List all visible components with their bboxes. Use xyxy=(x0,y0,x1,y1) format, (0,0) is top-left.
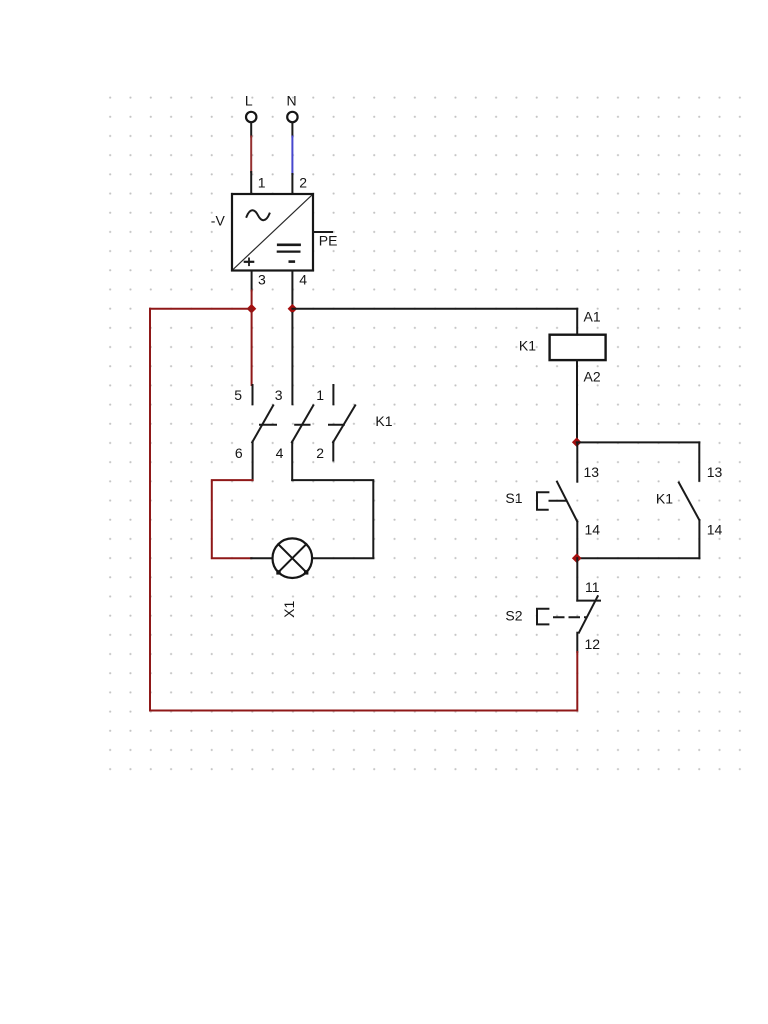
wire node B to coil branch xyxy=(292,308,577,310)
junction node C xyxy=(572,437,582,447)
svg-text:A2: A2 xyxy=(584,369,601,385)
contact K1 pole 5-6 xyxy=(252,405,273,480)
svg-text:1: 1 xyxy=(258,175,266,191)
terminal L xyxy=(246,112,256,122)
svg-text:K1: K1 xyxy=(656,491,673,507)
wire left rail vertical xyxy=(149,309,151,711)
wire node A to contact 5 xyxy=(251,309,254,405)
pushbutton actuator S2 xyxy=(537,609,587,625)
terminal N xyxy=(287,112,297,122)
svg-text:3: 3 xyxy=(275,387,283,403)
svg-text:3: 3 xyxy=(258,271,266,287)
wire contact 6 to lamp xyxy=(212,480,273,558)
wire node B to contact 3 xyxy=(291,313,293,404)
wire L to pin 1 xyxy=(250,123,252,194)
pushbutton actuator S1 xyxy=(537,492,567,510)
pin PE stub xyxy=(313,231,332,233)
svg-text:5: 5 xyxy=(234,387,242,403)
svg-text:14: 14 xyxy=(585,522,601,538)
svg-text:11: 11 xyxy=(585,579,600,595)
svg-text:K1: K1 xyxy=(375,413,392,429)
wire node C to K1 contact xyxy=(577,441,700,443)
svg-text:A1: A1 xyxy=(584,309,601,325)
svg-text:13: 13 xyxy=(707,464,723,480)
wire N to pin 2 xyxy=(291,123,293,194)
junction node D xyxy=(572,553,582,563)
contact K1 aux (NO) xyxy=(679,442,700,558)
wire node A to left rail xyxy=(150,308,252,310)
power supply U1 (-V) AC/DC converter xyxy=(232,194,313,271)
svg-text:1: 1 xyxy=(316,387,324,403)
junction node B xyxy=(288,304,298,314)
wire contact 4 to lamp xyxy=(292,480,373,558)
wire to coil A1 xyxy=(576,309,578,335)
svg-text:14: 14 xyxy=(707,522,723,538)
svg-text:S1: S1 xyxy=(505,490,522,506)
contact S1 (NO) xyxy=(557,442,577,558)
svg-text:S2: S2 xyxy=(505,608,522,624)
svg-text:12: 12 xyxy=(585,636,601,652)
svg-text:N: N xyxy=(286,93,296,109)
wire bottom rail xyxy=(150,710,577,712)
svg-text:L: L xyxy=(245,93,253,109)
svg-text:K1: K1 xyxy=(519,338,536,354)
svg-text:2: 2 xyxy=(316,445,324,461)
svg-text:X1: X1 xyxy=(281,601,297,618)
relay coil K1 xyxy=(550,335,606,360)
wire pin 4 to node B xyxy=(291,271,293,309)
wire coil A2 to node C xyxy=(576,360,578,442)
contact K1 pole 3-4 xyxy=(292,405,313,480)
junction node A xyxy=(247,304,257,314)
contact S2 (NC) xyxy=(577,558,600,652)
svg-text:2: 2 xyxy=(299,175,307,191)
svg-text:4: 4 xyxy=(299,271,307,287)
lamp X1 xyxy=(273,538,313,578)
contact K1 pole 1-2 xyxy=(333,385,355,461)
svg-text:6: 6 xyxy=(235,445,243,461)
mechanical linkage dashes xyxy=(260,424,344,426)
wire pin 3 to node A xyxy=(251,271,253,309)
svg-text:PE: PE xyxy=(319,233,338,249)
wire S2 pin 12 to bottom rail xyxy=(576,652,578,711)
wire 14 rail to node D xyxy=(577,557,700,559)
svg-text:4: 4 xyxy=(276,445,284,461)
svg-text:13: 13 xyxy=(584,464,600,480)
svg-text:-V: -V xyxy=(211,213,226,229)
